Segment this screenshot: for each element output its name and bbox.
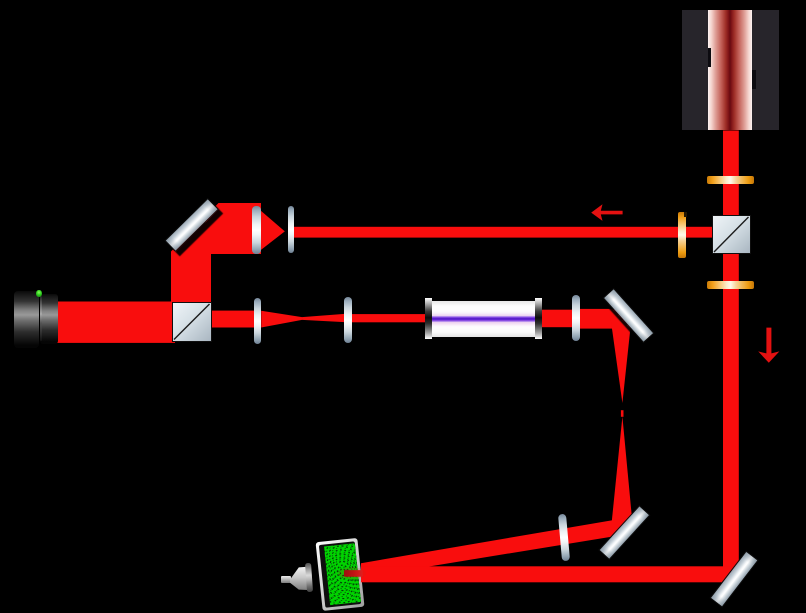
beam: BS2 to telescope lens T1 xyxy=(209,311,254,328)
beam: L3 to mirror M2 xyxy=(580,309,624,329)
beam: T2 to cell xyxy=(352,314,433,322)
beam: M4 to screen bottom horizontal xyxy=(361,566,736,582)
lens T2 telescope xyxy=(344,297,352,343)
half-wave plate WP2 left of BS1 xyxy=(678,212,686,258)
beam focus sliver xyxy=(621,410,624,417)
lens T1 telescope xyxy=(254,298,261,344)
arrow: direction down xyxy=(758,328,779,363)
laser head notch left xyxy=(708,48,711,67)
beam cone: M2 down to focus xyxy=(611,318,632,403)
beam: thick L from mirror M1 to lens L1 and down to BS2 xyxy=(171,203,261,304)
arrow: direction left xyxy=(591,204,622,221)
mirror M4 bottom right xyxy=(709,550,758,608)
laser head rod xyxy=(708,10,753,130)
beam: M3 to screen xyxy=(361,517,631,577)
screen holder disc xyxy=(305,563,312,592)
mirror M1 top left xyxy=(164,198,218,252)
BS1 diagonal xyxy=(712,215,751,254)
screen holder handle xyxy=(281,576,291,583)
beam: BS2 to camera xyxy=(56,302,175,343)
lens L3 after cell xyxy=(572,295,580,341)
vapor cell body xyxy=(432,301,536,338)
camera detector barrel small xyxy=(40,294,59,344)
lens L2 beam expander small xyxy=(288,206,295,253)
half-wave plate WP1 above BS1 xyxy=(707,176,755,184)
lens L1 beam expander big xyxy=(252,206,262,254)
WP2 dark notch xyxy=(684,212,687,217)
beam expander cone xyxy=(261,211,285,250)
lens L4 tilted before screen xyxy=(558,514,570,561)
camera detector barrel large xyxy=(14,291,39,348)
beam: top horizontal from BS1 to beam expander xyxy=(293,227,712,238)
screen holder cone xyxy=(286,562,310,594)
mirror M2 after cell xyxy=(602,288,654,343)
vapor cell fluorescence line xyxy=(432,316,536,322)
beam: cell to lens L3 xyxy=(538,310,573,328)
screen assembly xyxy=(316,538,364,610)
beam cone: focus to mirror M3 xyxy=(611,417,633,530)
camera barrel edge highlight xyxy=(40,296,42,341)
vapor cell left cap xyxy=(425,298,432,339)
beam: laser down to bottom mirror xyxy=(723,131,739,582)
half-wave plate WP3 below BS1 xyxy=(707,281,755,289)
mirror M3 bottom middle xyxy=(598,505,650,560)
beamsplitter cube BS1 xyxy=(712,215,751,254)
beamsplitter cube BS2 xyxy=(172,302,212,342)
vapor cell right cap xyxy=(535,298,542,339)
BS2 diagonal xyxy=(172,302,212,342)
telescope bowtie beam xyxy=(261,311,344,328)
laser head notch right xyxy=(752,70,756,89)
camera LED green xyxy=(36,290,42,298)
laser head body xyxy=(682,10,779,130)
